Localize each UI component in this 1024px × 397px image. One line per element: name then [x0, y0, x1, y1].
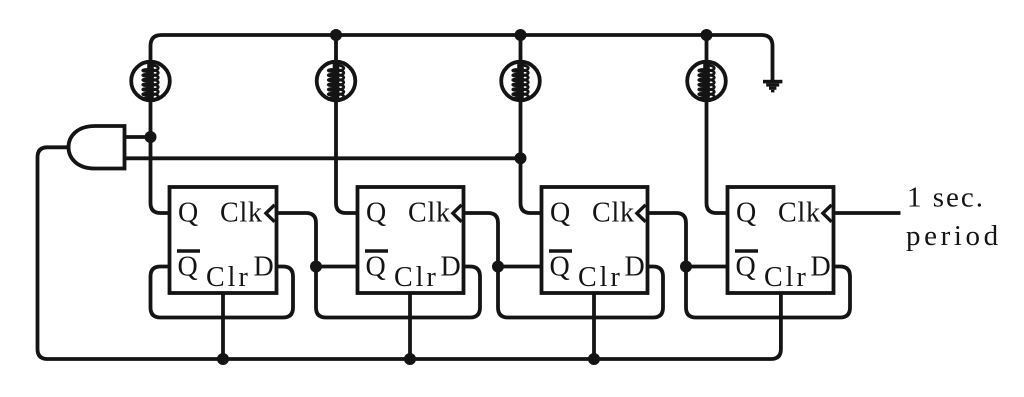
junction: Qbar2 node	[310, 261, 322, 273]
lamp L2	[317, 62, 356, 101]
wire: external clock input to Clk of U4	[834, 211, 901, 215]
wire: Clr stub U3	[592, 293, 596, 359]
wire: lamp L1 vertical down to Q of U1, through AND input junction	[151, 60, 170, 213]
svg-text:Clr: Clr	[578, 262, 623, 293]
AND gate U5 (mirrored, inputs on right, output left)	[69, 126, 125, 169]
wire: AND gate top input stub to Q1 node	[125, 135, 151, 139]
svg-text:Q: Q	[736, 198, 756, 229]
junction: AND input at Q3 node	[515, 152, 527, 164]
D flip-flop U1 box	[170, 187, 277, 293]
svg-text:Q: Q	[366, 252, 386, 283]
wire: Clk1 from U1 down to Qbar2 node and loop to D2 under U2	[277, 213, 481, 318]
U4 Clk edge arrow	[823, 205, 832, 222]
wire: lamp L2 vertical down to Q of U2	[336, 35, 358, 213]
U1 Clk edge arrow	[266, 205, 275, 222]
lamp L1	[131, 62, 170, 101]
wire: Qbar1 to D1 toggle loop under U1	[151, 267, 294, 318]
junction: Qbar4 node	[680, 261, 692, 273]
svg-text:D: D	[254, 252, 274, 283]
wire: Qbar3 stub to node	[498, 265, 542, 269]
svg-text:Clk: Clk	[778, 198, 821, 229]
lamp L4	[687, 62, 726, 101]
junction: Clr bus at U3	[588, 353, 600, 365]
junction: supply tap lamp L4	[701, 29, 713, 41]
svg-text:Clr: Clr	[206, 262, 251, 293]
junction: AND input at Q1 node	[145, 131, 157, 143]
junction: supply tap lamp L2	[330, 29, 342, 41]
svg-text:Clk: Clk	[592, 198, 635, 229]
wire: Clr stub U1	[221, 293, 225, 359]
D flip-flop U3 box	[542, 187, 648, 293]
wire: lamp L3 vertical down to Q of U3	[521, 35, 542, 213]
wire: Qbar2 stub to node	[316, 265, 358, 269]
svg-text:D: D	[811, 252, 831, 283]
wire: top supply rail from lamp L1 to ground drop	[151, 35, 773, 80]
svg-text:Clr: Clr	[764, 262, 809, 293]
U2 Clk edge arrow	[453, 205, 462, 222]
svg-text:Q: Q	[366, 198, 386, 229]
svg-text:D: D	[441, 252, 461, 283]
wire: Clr stub U2	[408, 293, 412, 359]
wire: Clk3 from U3 down to Qbar4 node and loop to D4 under U4	[648, 213, 851, 318]
wire: Qbar4 stub to node	[686, 265, 728, 269]
svg-text:1 sec.: 1 sec.	[907, 182, 985, 214]
junction: Clr bus at U1	[217, 353, 229, 365]
svg-text:Q: Q	[178, 198, 198, 229]
svg-text:Clk: Clk	[408, 198, 451, 229]
svg-text:Q: Q	[736, 252, 756, 283]
D flip-flop U4 box	[728, 187, 834, 293]
U3 Clk edge arrow	[637, 205, 646, 222]
svg-text:Q: Q	[550, 252, 570, 283]
D flip-flop U2 box	[358, 187, 464, 293]
svg-text:Clk: Clk	[220, 198, 263, 229]
wire: AND gate bottom input long wire to Q3 node	[125, 156, 521, 160]
svg-text:period: period	[906, 220, 1002, 252]
ground: chassis ground symbol at right end of supply rail	[763, 80, 782, 93]
wire: Clk2 from U2 down to Qbar3 node and loop to D3 under U3	[464, 213, 664, 318]
junction: supply tap lamp L3	[515, 29, 527, 41]
lamp L3	[501, 62, 540, 101]
wire: AND output feedback down left side along bottom Clr bus up to Clr of U4	[38, 147, 781, 359]
svg-text:Q: Q	[550, 198, 570, 229]
svg-text:Q: Q	[178, 252, 198, 283]
junction: Clr bus at U2	[404, 353, 416, 365]
wire: lamp L4 vertical down to Q of U4	[707, 35, 728, 213]
svg-text:Clr: Clr	[394, 262, 439, 293]
junction: Qbar3 node	[492, 261, 504, 273]
svg-text:D: D	[625, 252, 645, 283]
